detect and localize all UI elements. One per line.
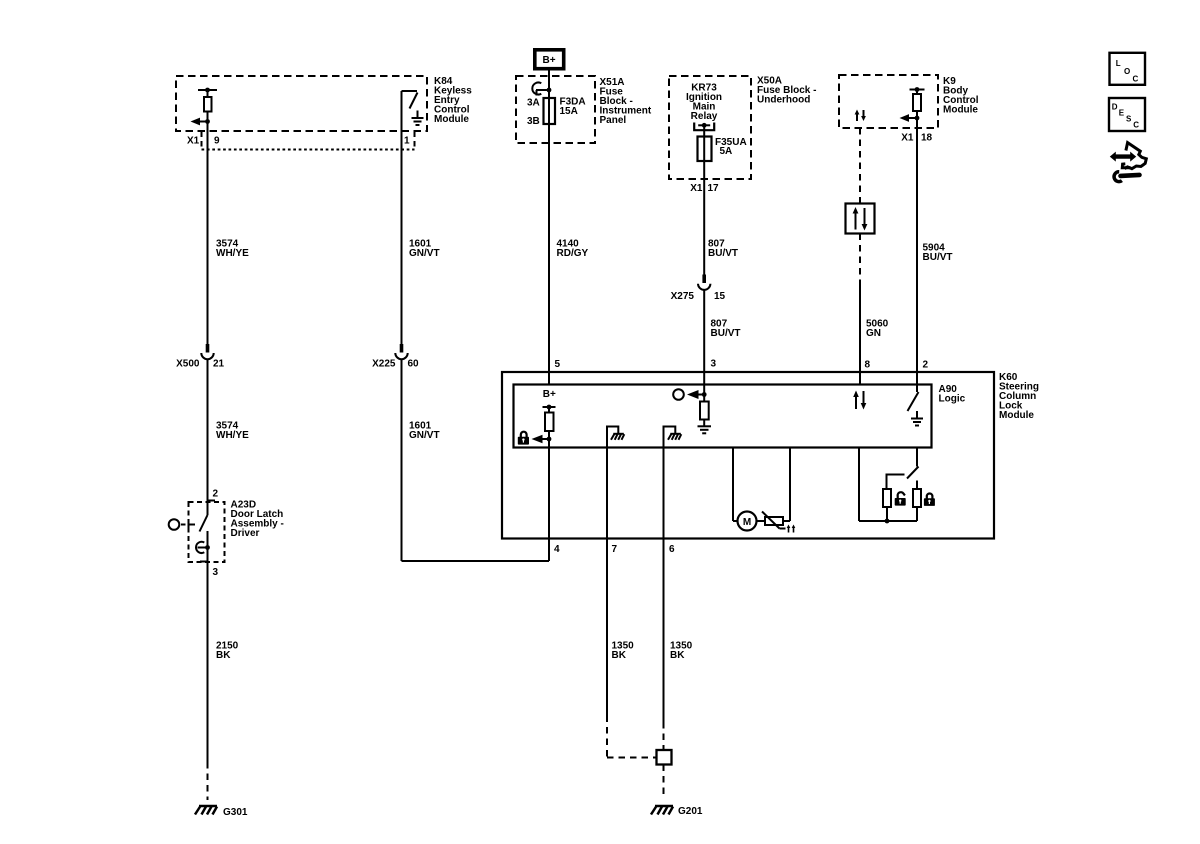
pin 3 label of K60 — [711, 359, 717, 370]
pin 7 label of K60 — [612, 544, 618, 555]
label F3DA 15A — [560, 97, 586, 118]
unlock icon open padlock — [895, 492, 906, 505]
svg-text:X1: X1 — [187, 136, 200, 147]
connector X1 bracket of K84 — [202, 132, 415, 150]
fuse F3DA 15A — [544, 98, 556, 124]
svg-text:S: S — [1126, 115, 1132, 124]
svg-text:D: D — [1112, 103, 1118, 112]
signal arrow at K9 pin 18 — [900, 114, 920, 122]
label 3574 WH/YE — [216, 421, 249, 442]
inline connector X500 pin 21 — [201, 344, 213, 359]
svg-text:3A: 3A — [527, 98, 540, 109]
svg-text:5: 5 — [555, 359, 561, 370]
fuse block X50A dashed box — [669, 76, 751, 179]
svg-text:X275: X275 — [671, 291, 695, 302]
switch internal to K84 — [402, 91, 418, 131]
svg-text:E: E — [1119, 109, 1125, 118]
label K9 Body Control Module — [943, 76, 979, 116]
terminal labels 3A 3B — [527, 98, 540, 128]
module K84 Keyless Entry Control Module dashed box — [176, 76, 427, 131]
lock icon closed padlock — [924, 493, 935, 505]
label 5060 GN — [866, 319, 889, 340]
wires joining lock resistors to rail — [859, 448, 917, 524]
node B+ internal supply — [543, 389, 556, 400]
svg-text:15A: 15A — [560, 106, 578, 117]
pin 6 label of K60 — [669, 544, 675, 555]
svg-text:C: C — [1133, 121, 1139, 130]
mechanical actuator link of A23D — [169, 519, 195, 530]
label A23D Door Latch Assembly - Driver — [231, 500, 284, 540]
svg-text:X1: X1 — [690, 183, 703, 194]
terminal clip 3A — [532, 83, 549, 96]
relay KR73 Ignition Main Relay — [686, 83, 722, 123]
svg-text:BU/VT: BU/VT — [711, 328, 741, 339]
svg-text:GN/VT: GN/VT — [409, 430, 440, 441]
ground G201 — [651, 806, 673, 815]
lock actuator switch below A90 — [887, 448, 919, 490]
wire 807 BU/VT from X275 to K60 pin 3 — [703, 291, 705, 395]
svg-text:O: O — [1124, 67, 1130, 76]
svg-text:2: 2 — [213, 489, 219, 500]
svg-text:1: 1 — [404, 136, 410, 147]
logic block A90 box — [514, 385, 932, 448]
wire serial data dashed from K9 to gateway box — [859, 128, 861, 204]
svg-text:Relay: Relay — [691, 111, 718, 122]
svg-text:GN: GN — [866, 328, 881, 339]
module K60 Steering Column Lock Module box — [502, 372, 994, 539]
pin 2 label of K60 — [923, 360, 929, 371]
label 1601 GN/VT — [409, 239, 440, 260]
svg-text:X225: X225 — [372, 359, 396, 370]
ground internal at pin 2 — [911, 411, 923, 426]
wire 3574 WH/YE from K84 pin 9 to X500 — [207, 122, 209, 345]
wire 1601 GN/VT from K84 pin 1 to X225 — [401, 131, 403, 344]
svg-text:L: L — [1116, 59, 1121, 68]
svg-text:6: 6 — [669, 544, 675, 555]
label K60 Steering Column Lock Module — [999, 372, 1039, 421]
svg-text:G301: G301 — [223, 807, 248, 818]
label F35UA 5A — [715, 137, 747, 157]
label wire 4140 RD/GY — [557, 239, 589, 260]
label X51A Fuse Block - Instrument Panel — [600, 77, 652, 126]
serial data arrows internal to K9 — [855, 110, 866, 122]
label 1601 GN/VT — [409, 421, 440, 442]
svg-text:Logic: Logic — [939, 394, 966, 405]
svg-text:BU/VT: BU/VT — [923, 252, 953, 263]
schematic navigation icon — [1110, 143, 1147, 182]
svg-text:Driver: Driver — [231, 528, 260, 539]
locator LOC reference box — [1110, 53, 1146, 85]
junction node pin 4/5 line — [547, 437, 552, 442]
pin 8 label of K60 — [865, 360, 871, 371]
pin label X1 18 of K9 — [901, 133, 932, 144]
chassis ground internal pin 6 — [668, 434, 681, 440]
svg-text:Module: Module — [943, 105, 978, 116]
label 807 BU/VT — [711, 319, 741, 340]
svg-text:BU/VT: BU/VT — [708, 248, 738, 259]
terminal clip inside A23D — [196, 531, 210, 576]
label 3574 WH/YE — [216, 239, 249, 260]
serial data arrows in box — [853, 207, 868, 231]
lock icon closed at B+ — [518, 432, 529, 445]
wire internal pin 5 to pin 4 — [548, 439, 550, 539]
ground internal to K84 — [412, 111, 424, 126]
ground internal at pin 3 — [698, 426, 712, 433]
serial data link box — [846, 204, 875, 234]
svg-text:21: 21 — [213, 359, 225, 370]
inline connector X275 pin 15 — [698, 275, 710, 290]
svg-text:15: 15 — [714, 291, 726, 302]
pin 2 of A23D — [208, 500, 216, 502]
svg-text:9: 9 — [214, 136, 220, 147]
label 1350 BK — [612, 641, 635, 662]
ground G301 — [195, 806, 217, 815]
serial data arrows internal to A90 — [853, 391, 866, 410]
svg-text:B+: B+ — [543, 389, 556, 400]
label K84 Keyless Entry Control Module — [434, 76, 472, 125]
label 807 BU/VT — [708, 239, 738, 260]
svg-text:60: 60 — [408, 359, 420, 370]
svg-text:BK: BK — [216, 650, 231, 661]
svg-text:3B: 3B — [527, 116, 540, 127]
svg-text:Module: Module — [434, 114, 469, 125]
svg-text:B+: B+ — [542, 55, 555, 66]
lock indicator arrow — [532, 435, 550, 444]
svg-text:4: 4 — [554, 544, 560, 555]
svg-text:Panel: Panel — [600, 115, 627, 126]
pin label X1 9 1 — [187, 136, 410, 147]
pin 5 label of K60 — [555, 359, 561, 370]
wire from relay through fuse F35UA — [703, 125, 705, 274]
junction node at fuse input — [547, 88, 552, 93]
thermistor PTC — [762, 512, 786, 529]
component A23D Door Latch Assembly - Driver dashed box — [189, 502, 225, 562]
label A90 Logic — [939, 384, 966, 405]
svg-text:3: 3 — [711, 359, 717, 370]
svg-text:G201: G201 — [678, 806, 703, 817]
chassis ground internal pin 7 — [611, 434, 624, 440]
wire B+ feed down through fuse F3DA to K60 pin 5 — [548, 71, 550, 385]
switch door latch — [200, 515, 208, 532]
wire 1601 GN/VT from X225 to K60 pin 4 — [402, 360, 550, 561]
locator DESC reference box — [1109, 98, 1145, 131]
pin 4 label of K60 — [554, 544, 560, 555]
inline connector X225 pin 60 — [395, 344, 407, 359]
wire 3574 WH/YE from X500 to A23D — [207, 360, 209, 515]
relay KR73 contact output cup — [694, 123, 714, 131]
resistor internal to K9 — [910, 87, 925, 118]
pin 3 of A23D — [200, 561, 208, 563]
pin label X1 17 of X50A — [690, 183, 719, 194]
resistor internal to K84 — [198, 88, 217, 122]
label X50A Fuse Block - Underhood — [757, 76, 816, 106]
resistor lock position — [913, 489, 921, 507]
wire 5060 GN to K60 pin 8 — [859, 280, 861, 385]
svg-text:WH/YE: WH/YE — [216, 248, 249, 259]
resistor unlock position — [883, 489, 891, 507]
svg-text:Underhood: Underhood — [757, 95, 810, 106]
wire 2150 BK — [207, 576, 209, 800]
svg-text:WH/YE: WH/YE — [216, 430, 249, 441]
switch internal at pin 2 — [908, 392, 919, 411]
label 5904 BU/VT — [923, 243, 953, 264]
wire 5904 BU/VT from K9 to K60 pin 2 — [916, 118, 918, 392]
svg-text:5A: 5A — [720, 146, 733, 157]
power symbol B+ — [535, 50, 564, 69]
svg-text:C: C — [1133, 75, 1139, 84]
internal ground trace pin 7 — [607, 427, 618, 539]
svg-text:BK: BK — [670, 650, 685, 661]
svg-text:BK: BK — [612, 650, 627, 661]
internal ground trace pin 6 — [664, 427, 676, 539]
resistor internal at pin 3 — [700, 395, 709, 427]
svg-text:2: 2 — [923, 360, 929, 371]
module K9 Body Control Module dashed box — [839, 75, 938, 128]
svg-text:RD/GY: RD/GY — [557, 248, 589, 259]
signal arrow at K84 pin 9 — [191, 118, 210, 126]
fuse F35UA 5A — [698, 137, 712, 162]
svg-text:GN/VT: GN/VT — [409, 248, 440, 259]
wire dashed splice to G201 — [663, 765, 665, 796]
splice node — [657, 750, 672, 765]
wire 1350 BK from K60 pin 6 — [663, 539, 665, 751]
svg-text:17: 17 — [708, 183, 720, 194]
fuse block X51A dashed box — [516, 76, 595, 143]
sensor circle with arrow at pin 3 — [673, 389, 706, 400]
motor branch wires — [733, 448, 790, 522]
label 1350 BK — [670, 641, 693, 662]
wire 1350 BK from K60 pin 7 — [607, 539, 657, 758]
motor M steering column lock — [738, 512, 757, 531]
svg-text:7: 7 — [612, 544, 618, 555]
svg-text:X1: X1 — [901, 133, 914, 144]
thermal arrows — [787, 525, 796, 533]
svg-text:M: M — [743, 517, 751, 528]
svg-text:Module: Module — [999, 410, 1034, 421]
svg-text:18: 18 — [921, 133, 933, 144]
wire serial data dashed below box — [859, 234, 861, 281]
label 2150 BK — [216, 641, 239, 662]
svg-text:8: 8 — [865, 360, 871, 371]
resistor internal on B+ line — [545, 407, 554, 439]
svg-text:3: 3 — [213, 567, 219, 578]
svg-text:X500: X500 — [176, 359, 200, 370]
